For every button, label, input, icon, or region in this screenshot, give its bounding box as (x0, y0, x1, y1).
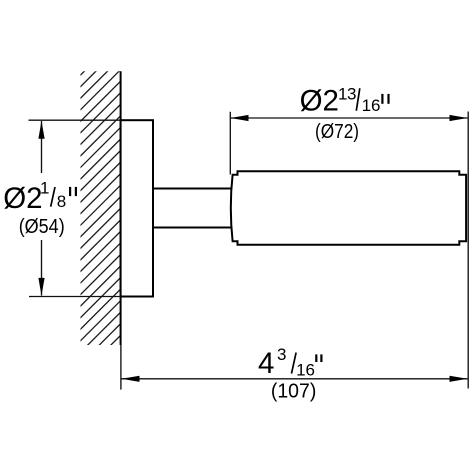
arrow top-left (231, 115, 249, 121)
cylinder ring body (231, 171, 466, 245)
extension line right (467, 112, 469, 389)
label Ø2 13/16 inch (top) (300, 84, 390, 117)
arrow top-right (450, 115, 468, 121)
svg-text:3: 3 (277, 345, 286, 364)
svg-text:16: 16 (296, 361, 315, 380)
extension line below wall (for 107 dim) (120, 345, 122, 390)
dimension line bottom (107) (121, 378, 467, 380)
svg-text:Ø2: Ø2 (300, 85, 339, 118)
wall edge line (120, 71, 122, 345)
svg-text:(Ø54): (Ø54) (19, 216, 65, 238)
svg-text:16: 16 (362, 96, 381, 115)
svg-text:(Ø72): (Ø72) (315, 121, 359, 143)
label Ø2 1/8 inch (left) (3, 179, 77, 216)
arrow left-bottom (38, 278, 44, 296)
svg-text:1: 1 (40, 179, 49, 198)
arrow left-top (38, 121, 44, 139)
svg-text:(107): (107) (271, 381, 317, 403)
extension line top-left (at cylinder face) (229, 112, 231, 175)
mounting plate rosette (121, 120, 153, 296)
arrow bottom-right (450, 376, 468, 382)
wall hatching (0, 60, 396, 350)
label 4 3/16 inch (bottom) (258, 345, 323, 380)
svg-text:Ø2: Ø2 (3, 182, 42, 215)
dimension line left (Ø54) upper segment (41, 121, 43, 173)
dimension line left (Ø54) lower segment (41, 240, 43, 296)
svg-text:8: 8 (57, 192, 66, 211)
extension line left bottom (plate bottom) (29, 296, 121, 298)
svg-text:4: 4 (258, 347, 274, 380)
svg-text:13: 13 (338, 84, 356, 103)
dimension line top (Ø72) (231, 117, 468, 119)
stem wire bottom (153, 227, 232, 229)
arrow bottom-left (122, 376, 140, 382)
stem wire top (153, 188, 232, 190)
extension line left top (plate top) (29, 119, 121, 121)
